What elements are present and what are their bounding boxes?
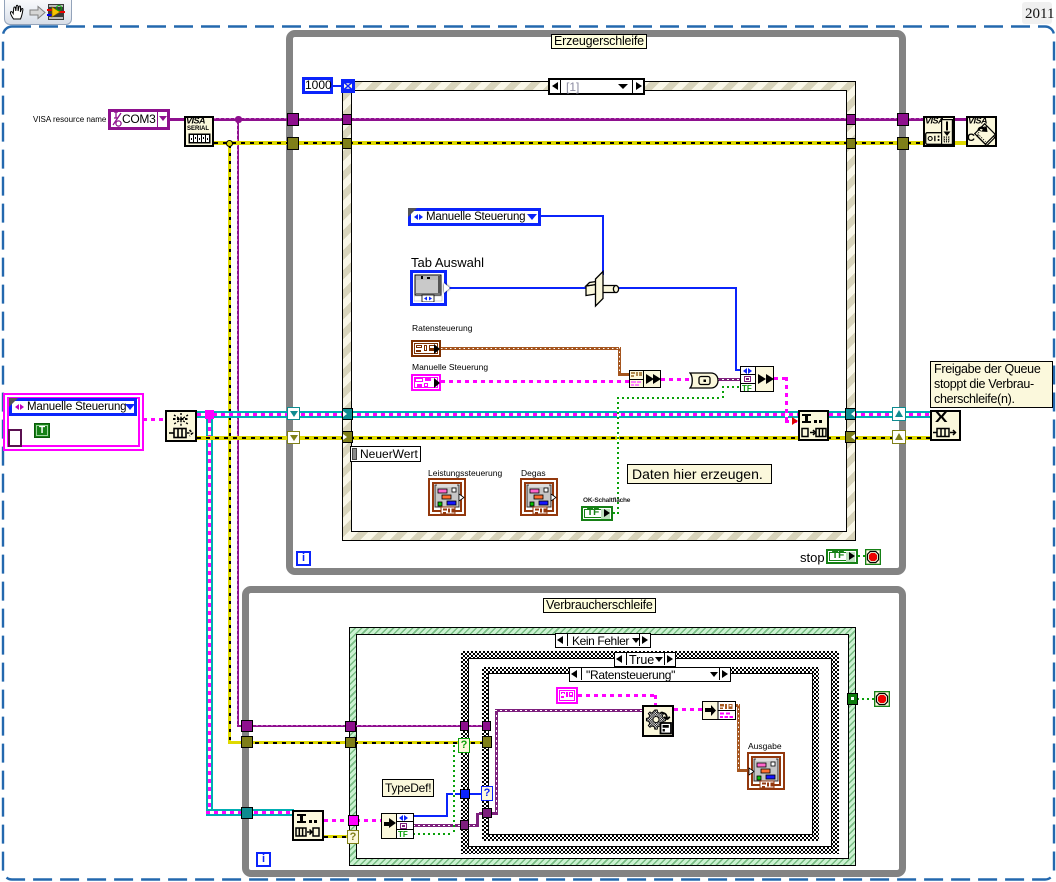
tunnel purple case1 left: [342, 114, 352, 125]
label Degas: [521, 468, 546, 478]
tunnel blue truecase: [460, 789, 470, 799]
indicator: Ausgabe cluster icon: [747, 752, 785, 790]
constant: cluster (enum + bool): [3, 393, 144, 451]
toolbar arrow icon: [29, 5, 46, 20]
iteration terminal consumer loop: [256, 852, 271, 867]
tunnel olive innercase left: [482, 736, 492, 748]
label Ausgabe: [748, 741, 782, 751]
tunnel olive loop1 left: [287, 137, 299, 150]
wire: magenta dequeue out to unbundle: [324, 819, 382, 822]
selector ? greencase (error): [347, 830, 359, 844]
small empty box in cluster: [8, 429, 22, 447]
label Manuelle Steuerung (terminal): [412, 362, 488, 372]
wire: magenta bundle1 to tovariant: [661, 378, 691, 381]
wire: error yellow into consumer loop: [246, 741, 491, 744]
node: variant to data: [642, 705, 674, 737]
enum inside cluster: [9, 398, 137, 416]
wire: error yellow from obtain queue to release: [197, 436, 930, 440]
tunnel purple innercase low: [482, 808, 492, 818]
wire: variant purple from unbundle into inner case: [413, 824, 479, 827]
label Ratensteuerung: [412, 323, 473, 333]
tunnel olive case1 left low: [342, 431, 353, 443]
wire: variant purple to bundle2: [717, 378, 740, 381]
iteration terminal top loop: [296, 551, 311, 566]
tunnel olive arrow loop1 right: [892, 430, 906, 444]
tunnel teal arrow loop1 left: [287, 407, 300, 420]
tunnel teal case1 left: [342, 408, 353, 420]
constant 1000: [333, 85, 342, 87]
comment: TypeDef!: [382, 779, 434, 797]
wire: magenta bundle2 out to enqueue: [774, 377, 788, 380]
control: Leistungssteuerung cluster icon: [428, 478, 466, 516]
green error case: [349, 627, 856, 866]
node: unbundle by name: [381, 813, 414, 839]
tunnel purple innercase left: [482, 721, 491, 731]
node: convert/coerce (arrow + cluster rows): [702, 701, 736, 720]
tunnel purple loop1 left: [287, 113, 299, 126]
label OK-Schaltflaeche: [583, 497, 630, 504]
control: OK boolean TF: [581, 506, 613, 521]
node: select (3D pipe): [583, 269, 623, 309]
wire: VISA purple vertical branch: [237, 119, 239, 727]
selector ? truecase (boolean green): [458, 738, 470, 753]
toolbar hand icon: [8, 3, 27, 22]
wire: blue enum constant down to select: [541, 215, 604, 217]
wire: green dotted stop to conditional terminal: [858, 555, 866, 557]
while loop border 2: [242, 586, 906, 877]
tunnel olive case1 left: [342, 138, 352, 149]
comment: Freigabe der Queue: [930, 361, 1053, 408]
tunnel purple truecase low: [460, 820, 469, 830]
tunnel olive case1 right: [846, 138, 856, 149]
control: stop boolean TF: [826, 549, 858, 564]
wire: yellow dequeue error to case selector: [324, 835, 349, 838]
tunnel olive loop2 left: [241, 736, 253, 748]
wire: error yellow vertical branch: [228, 145, 231, 743]
constant: queue element type (magenta): [556, 687, 578, 704]
node: purple junction dot: [235, 116, 242, 123]
wire: magenta variant node out: [674, 708, 702, 711]
wire: queue refnum vertical down to consumer: [206, 411, 213, 816]
node: to variant (boat): [689, 372, 719, 389]
control: Degas cluster icon: [520, 478, 558, 516]
loop conditional terminal (stop sign) top loop: [865, 549, 881, 565]
wire: green dotted TF to true case selector: [413, 833, 455, 835]
tunnel purple greencase left: [345, 721, 356, 732]
tunnel purple loop1 right: [897, 113, 909, 126]
node: red coercion dot: [792, 417, 798, 425]
case selector Kein Fehler: [555, 633, 651, 648]
inner string case: [482, 667, 819, 841]
control: Ratensteuerung terminal: [411, 340, 441, 357]
case structure (beige hatched): [342, 81, 856, 541]
tunnel teal arrow loop1 right: [892, 407, 906, 421]
node: dequeue element: [292, 810, 324, 841]
node: Wait (ms) timer: [341, 79, 355, 93]
wire: green dotted to loop stop terminal: [857, 698, 874, 700]
node: bundle (3 inputs): [740, 366, 774, 392]
node: obtain queue: [165, 410, 197, 442]
node: release queue: [930, 410, 961, 441]
case selector True: [614, 652, 676, 667]
tunnel olive loop1 right: [897, 137, 909, 150]
case selector "Ratensteuerung": [569, 667, 731, 682]
node: magenta junction: [205, 410, 214, 419]
label Tab Auswahl: [411, 255, 484, 270]
label stop: [800, 550, 825, 565]
constant: enum Manuelle Steuerung: [408, 208, 541, 226]
tunnel olive arrow loop1 left: [287, 431, 300, 444]
checkered TRUE case: [461, 651, 839, 854]
control: COM3 VISA resource: [108, 109, 170, 130]
tunnel teal case1 right: [845, 408, 856, 420]
node: enqueue element: [798, 410, 829, 441]
wire: blue tab wire: [447, 287, 586, 289]
wire: magenta cluster into obtain queue: [143, 418, 166, 421]
tunnel teal loop2 left: [241, 807, 253, 819]
inner loop label: [551, 34, 647, 49]
loop conditional terminal (stop sign) consumer loop: [874, 691, 890, 707]
tunnel green boolean greencase right: [847, 693, 858, 705]
boolean T constant: [34, 423, 50, 438]
wire: brown to Ausgabe: [734, 704, 740, 707]
wire: VISA purple into consumer loop: [246, 725, 490, 727]
wire: brown cluster Ratensteuerung: [441, 347, 621, 350]
node: yellow junction ring: [226, 140, 233, 147]
node: VISA Configure Serial Port: [184, 116, 214, 147]
loop 2 label: [543, 598, 656, 613]
wire: queue refnum bottom horizontal into dequeue: [206, 809, 294, 816]
comment: Daten hier erzeugen: [627, 464, 772, 484]
wire: queue refnum teal+magenta main horizontal: [197, 411, 930, 418]
wire: error yellow horizontal top: [214, 141, 924, 145]
tunnel olive greencase left: [345, 737, 356, 748]
label VISA resource name: [33, 115, 106, 124]
selector ? innercase (blue): [481, 786, 493, 801]
node: VISA Close: [966, 116, 997, 147]
tunnel purple case1 right: [846, 114, 856, 125]
wire: green dotted OK button up to bundle2: [613, 512, 619, 514]
wire: magenta type constant to variant node: [578, 694, 657, 697]
toolbar VI icon: [47, 3, 65, 21]
wire: magenta Manuelle Steuerung to bundle: [441, 380, 630, 383]
label Leistungssteuerung: [428, 468, 502, 478]
toolbar: [4, 0, 72, 25]
control: tab terminal: [410, 270, 447, 306]
tunnel purple truecase left: [460, 721, 469, 731]
control: Manuelle Steuerung terminal: [411, 374, 441, 391]
2011 version tag: [1022, 2, 1052, 24]
tunnel magenta greencase left: [348, 815, 359, 826]
event data node NeuerWert: [350, 446, 421, 462]
while loop border: [286, 30, 906, 575]
wire: blue enum from unbundle to inner selector: [413, 815, 448, 817]
case selector [1]: [548, 78, 645, 95]
node: VISA Write (top right): [923, 116, 955, 147]
wire: VISA purple horizontal: [170, 118, 184, 121]
tunnel purple loop2 left: [241, 720, 253, 732]
tunnel olive case1 right low: [845, 431, 856, 443]
node: bundle (2 inputs): [629, 370, 661, 388]
